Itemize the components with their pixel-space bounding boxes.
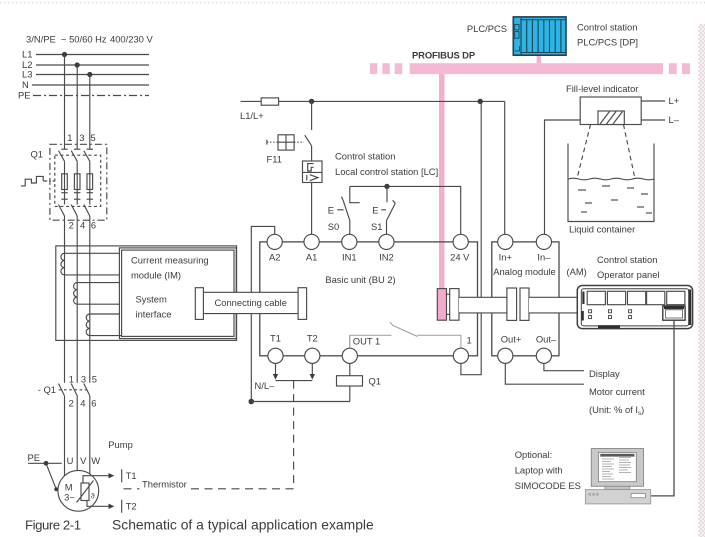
figure caption: [25, 517, 374, 533]
node N/L- junction: [249, 399, 255, 405]
wire L-: [641, 114, 680, 125]
system interface cable BU to AM: [459, 297, 507, 313]
liquid container tank: [568, 144, 654, 222]
svg-text:PROFIBUS DP: PROFIBUS DP: [412, 50, 475, 61]
control station operator panel text: [597, 254, 660, 280]
svg-text:- Q1: - Q1: [38, 384, 56, 395]
PE label and wire: [28, 452, 62, 491]
svg-text:Liquid container: Liquid container: [569, 224, 635, 235]
svg-text:OUT 1: OUT 1: [353, 336, 380, 347]
wire phase 2 down to Q1: [76, 65, 78, 149]
svg-text:S1: S1: [371, 221, 382, 232]
liquid surface wavy line: [568, 178, 654, 180]
analog module AM box: [492, 242, 559, 356]
svg-text:Connecting cable: Connecting cable: [214, 297, 286, 308]
line L1: [22, 49, 149, 60]
contactor coil Q1: [337, 376, 382, 402]
wire operator panel to laptop: [651, 320, 674, 496]
svg-text:1: 1: [467, 334, 472, 345]
svg-text:V: V: [80, 455, 87, 466]
svg-text:L+: L+: [669, 95, 680, 106]
thermistor lead T1 with arrow: [83, 469, 137, 483]
contactor -Q1 pole 1: [59, 384, 65, 488]
Q1 pin labels 1 3 5: [67, 132, 95, 143]
motor labels: [64, 482, 75, 503]
svg-text:PLC/PCS: PLC/PCS: [467, 23, 507, 34]
terminal In+: [498, 234, 513, 249]
overcurrent release I> block: [303, 161, 323, 183]
svg-text:L1: L1: [22, 49, 32, 60]
svg-text:Current measuring: Current measuring: [131, 255, 209, 266]
terminal T2: [305, 348, 320, 363]
svg-text:N: N: [22, 79, 29, 90]
svg-text:Operator panel: Operator panel: [597, 269, 660, 280]
operator panel display window: [663, 306, 685, 320]
line L2: [22, 59, 149, 70]
svg-text:Display: Display: [589, 368, 620, 379]
PROFIBUS drop line to basic unit: [439, 74, 445, 289]
BU terminal labels top: [269, 251, 470, 262]
wire phase 3 Q1 to motor: [89, 216, 91, 383]
AM terminal labels: [499, 251, 557, 344]
terminal OUT1: [342, 348, 357, 363]
svg-text:Control station: Control station: [597, 254, 657, 265]
terminal T1: [268, 348, 283, 363]
line PE dash-dot: [18, 90, 149, 101]
operator panel small buttons: [589, 310, 632, 319]
wire phase 2 Q1 to motor: [76, 216, 78, 383]
svg-text:Q1: Q1: [369, 376, 382, 387]
svg-text:ϑ: ϑ: [91, 493, 95, 500]
thermistor in motor: [77, 481, 95, 503]
wire L1/L+ rail: [279, 100, 505, 102]
svg-text:3: 3: [79, 132, 84, 143]
-Q1 pin labels 2 4 6: [69, 397, 97, 408]
IM text labels: [131, 255, 209, 320]
current measuring module IM outer box: [56, 246, 237, 341]
svg-text:PLC/PCS [DP]: PLC/PCS [DP]: [577, 37, 638, 48]
Q1 pole 2 contact and heater: [71, 149, 80, 216]
wire I> to A1: [311, 183, 313, 235]
svg-text:Pump: Pump: [108, 439, 133, 450]
wire 24V rail for S0 S1: [350, 186, 461, 234]
laptop monitor: [591, 449, 643, 487]
pushbutton S1 NO: [372, 186, 395, 234]
svg-text:E: E: [328, 205, 334, 216]
terminal IN1: [342, 234, 357, 249]
circuit breaker Q1 outline: [50, 144, 107, 220]
svg-text:4: 4: [80, 219, 85, 230]
svg-text:Out+: Out+: [501, 333, 522, 344]
terminal Out+: [498, 348, 513, 363]
T1 terminal arrow: [273, 363, 278, 380]
sensor beam dashed left: [578, 125, 591, 177]
svg-text:In+: In+: [499, 251, 513, 262]
wire phase 1 Q1 to motor: [64, 216, 66, 383]
analog module labels: [493, 266, 587, 277]
svg-text:L–: L–: [669, 114, 680, 125]
svg-text:6: 6: [91, 219, 96, 230]
svg-text:module (IM): module (IM): [131, 270, 181, 281]
svg-text:SIMOCODE ES: SIMOCODE ES: [515, 480, 581, 491]
fill-level indicator box: [580, 97, 641, 125]
operator panel body: [577, 286, 692, 329]
Q1 trip actuator symbol: [21, 176, 55, 186]
node L1/L+ at F10 drop: [309, 99, 314, 104]
svg-text:Out–: Out–: [536, 333, 557, 344]
node L3 tap: [87, 72, 92, 77]
cable AM to operator panel: [529, 297, 577, 313]
svg-text:Thermistor: Thermistor: [142, 479, 187, 490]
svg-text:1: 1: [69, 373, 74, 384]
wire OUT1 to Q1 coil: [349, 363, 351, 376]
svg-text:L3: L3: [22, 69, 32, 80]
node L2 tap: [75, 62, 80, 67]
svg-text:interface: interface: [136, 309, 172, 320]
wire terminal 1 to L1/L+ drop: [461, 101, 481, 374]
svg-text:PE: PE: [18, 90, 31, 101]
svg-text:IN2: IN2: [379, 251, 394, 262]
svg-text:5: 5: [92, 373, 97, 384]
wire fill-level to In-: [545, 120, 581, 235]
svg-text:PE: PE: [28, 452, 41, 463]
wire L+: [641, 95, 680, 106]
Q1 pole 1 contact and heater: [59, 149, 68, 216]
svg-text:5: 5: [90, 132, 95, 143]
AM connectors: [507, 288, 529, 320]
svg-text:System: System: [136, 294, 167, 305]
node S1 tap: [384, 184, 389, 189]
svg-text:Schematic of a typical applica: Schematic of a typical application examp…: [112, 517, 374, 533]
terminal A1: [304, 234, 319, 249]
current transformer coil 3: [86, 314, 121, 336]
svg-text:2: 2: [69, 397, 74, 408]
laptop stand: [605, 486, 630, 489]
node L1/L+ at terminal 1 drop: [478, 99, 483, 104]
PROFIBUS connector on basic unit: [437, 289, 459, 321]
svg-text:Laptop with: Laptop with: [515, 464, 563, 475]
svg-text:3/N/PE: 3/N/PE: [26, 34, 56, 45]
wire phase 1 down to Q1: [64, 55, 66, 150]
svg-text:3~: 3~: [64, 491, 75, 502]
svg-text:L1/L+: L1/L+: [240, 110, 264, 121]
PROFIBUS DP bus: [370, 63, 690, 74]
wire phase 3 down to Q1: [89, 75, 91, 150]
current transformer coil 2: [74, 283, 120, 305]
sensor beam dashed right: [624, 125, 635, 177]
display motor current text: [589, 368, 645, 417]
svg-text:T1: T1: [270, 333, 281, 344]
BU terminal labels bottom: [270, 333, 318, 344]
F11 crossed box: [267, 135, 304, 150]
svg-text:Figure 2-1: Figure 2-1: [25, 518, 81, 533]
liquid dashes: [578, 186, 652, 213]
pushbutton S0 NC: [328, 186, 360, 234]
laptop base unit: [585, 490, 650, 504]
wire N/L- rail to Q1 coil: [251, 401, 349, 403]
contactor -Q1 linkage dashes: [59, 389, 88, 391]
operator panel keys: [587, 291, 685, 304]
wire L1/L+ to In+: [504, 101, 506, 234]
supply header text: [26, 34, 153, 45]
basic unit BU2 box: [260, 242, 478, 356]
thermistor dashed link horizontal: [124, 488, 294, 490]
connecting cable IM to BU: [195, 288, 306, 320]
relay contact OUT1 inside basic unit: [350, 322, 461, 349]
svg-text:T2: T2: [126, 500, 137, 511]
wire Out- to display text: [544, 363, 584, 371]
svg-text:E: E: [372, 205, 378, 216]
Q1 pole 3 contact and heater: [84, 149, 93, 216]
fuse on L1/L+: [241, 98, 279, 105]
svg-text:A1: A1: [306, 251, 317, 262]
svg-text:Optional:: Optional:: [515, 449, 553, 460]
svg-text:IN1: IN1: [342, 251, 357, 262]
svg-text:N/L–: N/L–: [255, 380, 276, 391]
wire joining T1 T2 arrows: [276, 380, 313, 382]
svg-text:F11: F11: [267, 154, 282, 165]
svg-text:3: 3: [81, 373, 86, 384]
svg-text:W: W: [91, 455, 100, 466]
wire Out+ to display text: [505, 363, 584, 384]
svg-text:T2: T2: [307, 333, 318, 344]
svg-text:Basic unit (BU 2): Basic unit (BU 2): [325, 274, 395, 285]
thermistor label: [140, 479, 189, 492]
svg-text:Motor current: Motor current: [589, 386, 645, 397]
svg-text:U: U: [67, 455, 74, 466]
svg-text:T1: T1: [126, 470, 137, 481]
svg-text:A2: A2: [269, 251, 280, 262]
line L3: [22, 69, 149, 80]
terminal In-: [536, 234, 551, 249]
optional laptop text: [515, 449, 581, 491]
line N: [22, 79, 149, 90]
svg-text:Local control station [LC]: Local control station [LC]: [335, 166, 438, 177]
switch above F11: [305, 101, 312, 161]
operator panel dark details: [582, 290, 692, 329]
current measuring module IM inner double box: [119, 248, 236, 339]
svg-text:1: 1: [67, 132, 72, 143]
terminal IN2: [379, 234, 394, 249]
wire A2 to N/L- rail: [251, 226, 274, 401]
svg-text:Analog module: Analog module: [493, 266, 556, 277]
svg-text:4: 4: [80, 397, 85, 408]
Q1 inner dashed box: [55, 155, 101, 206]
motor M 3~ circle: [58, 470, 99, 511]
contactor -Q1 pole 3: [84, 384, 90, 488]
PLC stub to bus: [537, 55, 541, 63]
node L1 tap: [62, 52, 67, 57]
svg-text:Q1: Q1: [30, 149, 43, 160]
control station text: [335, 151, 438, 178]
svg-text:Control station: Control station: [335, 151, 395, 162]
current transformer coil 1: [61, 253, 120, 275]
thermistor dashed link vertical: [293, 381, 295, 489]
terminal 1: [453, 348, 468, 363]
terminal 24V: [453, 234, 468, 249]
PLC/PCS module: [513, 17, 566, 55]
terminal A2: [267, 234, 282, 249]
svg-text:Fill-level indicator: Fill-level indicator: [566, 83, 638, 94]
svg-text:400/230 V: 400/230 V: [110, 34, 153, 45]
T2 terminal arrow: [310, 363, 315, 380]
svg-text:Control station: Control station: [577, 21, 637, 32]
thermistor lead T2 with arrow: [87, 500, 137, 513]
svg-text:6: 6: [91, 397, 96, 408]
svg-text:S0: S0: [328, 221, 339, 232]
svg-text:2: 2: [69, 219, 74, 230]
svg-text:~ 50/60 Hz: ~ 50/60 Hz: [61, 34, 107, 45]
control station PLC text: [577, 21, 638, 47]
motor terminal labels U V W: [67, 455, 101, 466]
svg-text:24 V: 24 V: [450, 251, 470, 262]
fill-level sensor hatched element: [598, 111, 624, 125]
svg-text:In–: In–: [537, 251, 551, 262]
svg-text:(AM): (AM): [567, 266, 587, 277]
contactor -Q1 pole 2: [71, 384, 77, 488]
Q1 pin labels 2 4 6: [69, 219, 97, 230]
terminal Out-: [536, 348, 551, 363]
-Q1 pin labels 1 3 5: [69, 373, 97, 384]
